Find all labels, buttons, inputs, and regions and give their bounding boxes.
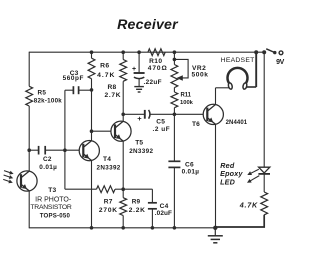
wire R8 to T5 collector (122, 81, 124, 121)
headset headband (228, 68, 248, 84)
node junction rail end switch (262, 50, 266, 54)
wire rail to R6 (91, 52, 93, 58)
wire T3 emitter to ground rail (28, 191, 30, 229)
svg-text:2N3392: 2N3392 (129, 148, 153, 155)
wire T3 collector to C2 (29, 149, 38, 151)
svg-text:R7: R7 (104, 199, 113, 206)
wire bottom ground rail (29, 227, 215, 229)
svg-text:C5: C5 (156, 118, 165, 125)
wire C4 to ground rail (151, 209, 153, 228)
svg-text:C2: C2 (43, 156, 52, 163)
wire left vertical rail-to-R5 (28, 52, 30, 87)
node junction main ground (213, 226, 217, 230)
VR2 wiper rheostat loop (174, 59, 188, 78)
svg-text:Receiver: Receiver (117, 17, 179, 33)
node junction T4 collector / T5 base (90, 129, 94, 133)
capacitor C5 polarized (144, 110, 146, 119)
wire LED to resistor (263, 174, 265, 192)
capacitor C4 (148, 202, 157, 204)
svg-text:+: + (132, 66, 136, 73)
wire feedback vertical C3/C2/R7 (64, 90, 66, 189)
svg-text:.02uF: .02uF (155, 210, 172, 217)
potentiometer VR2 (171, 65, 178, 88)
svg-text:4.7K: 4.7K (239, 201, 258, 210)
wire T6 base lead (174, 113, 203, 115)
transistor T3 IR phototransistor (17, 171, 37, 191)
node junction R9 ground (121, 226, 125, 230)
node junction rail R6 (90, 50, 94, 54)
svg-text:82k-100k: 82k-100k (34, 98, 62, 105)
svg-text:.2 uF: .2 uF (153, 126, 171, 133)
resistor 4.7K LED (261, 192, 268, 215)
svg-text:R11: R11 (181, 93, 192, 99)
wire LED branch to ground thick (215, 215, 264, 227)
battery terminal 9V (279, 51, 283, 55)
svg-text:T6: T6 (192, 121, 200, 128)
svg-text:R9: R9 (132, 199, 141, 206)
node junction VR2 top wiper (173, 58, 177, 62)
wire C3 left lead (65, 89, 74, 91)
wire R9 to ground rail (122, 216, 124, 228)
node junction rail VR2 (173, 50, 177, 54)
svg-text:2N4401: 2N4401 (226, 120, 248, 126)
svg-text:0.01µ: 0.01µ (39, 164, 57, 171)
wire C5 left lead (123, 113, 144, 115)
wire C2 to T4 base (45, 149, 79, 151)
wire rail to VR2 (173, 52, 175, 64)
node junction C6 ground (173, 226, 177, 230)
wire T5 emitter down (122, 141, 124, 189)
svg-text:R6: R6 (100, 63, 110, 70)
svg-text:R5: R5 (38, 90, 47, 97)
switch lever (266, 49, 274, 53)
node junction rail bypass cap (137, 50, 141, 54)
svg-text:C6: C6 (185, 161, 194, 168)
wire R11 to node (173, 108, 175, 115)
capacitor C6 (168, 160, 180, 162)
node junction headset rail (254, 50, 258, 54)
switch contact dot (273, 51, 276, 54)
ground symbol main (214, 228, 216, 236)
wire T4 emitter down to ground (91, 161, 93, 228)
wire rail to R8 (122, 52, 124, 59)
svg-text:TRANSISTOR: TRANSISTOR (30, 204, 72, 211)
node junction R6/C3 (90, 88, 94, 92)
wire node to C4 (123, 188, 152, 190)
svg-text:C4: C4 (160, 203, 169, 210)
wire cap to ground symbol (138, 79, 140, 87)
resistor R8 (120, 60, 127, 82)
headset left earpiece (228, 82, 233, 89)
wire VR2 to R11 (173, 88, 175, 92)
svg-text:IR PHOTO-: IR PHOTO- (35, 196, 72, 203)
wire C3 node to T4 collector node (91, 90, 93, 131)
svg-text:HEADSET: HEADSET (221, 57, 255, 64)
node junction C2 tap (27, 148, 31, 152)
IR light arrows into T3 (4, 171, 12, 174)
svg-text:2.7K: 2.7K (105, 92, 122, 99)
LED emission arrows (249, 169, 259, 174)
node junction C5/R11/T6 base (173, 113, 177, 117)
wire node to R9 (122, 189, 124, 198)
wire rail down to LED (263, 52, 265, 167)
svg-text:T4: T4 (103, 156, 111, 163)
svg-text:500k: 500k (192, 71, 209, 78)
LED red epoxy (259, 167, 270, 173)
svg-text:100k: 100k (180, 100, 194, 106)
capacitor .22uF polarized (134, 72, 145, 74)
wire R6 to C3 node (91, 79, 93, 90)
wire T4 collector up (91, 131, 93, 141)
svg-text:R10: R10 (149, 58, 162, 65)
resistor R10 (148, 49, 165, 56)
svg-text:TOPS-050: TOPS-050 (40, 213, 71, 220)
resistor R6 (88, 58, 95, 78)
wire T6 collector up (215, 88, 217, 105)
wire top supply rail (29, 51, 264, 53)
wire R5 to T3 collector (28, 106, 30, 171)
transistor T4 (79, 141, 99, 161)
svg-text:270K: 270K (99, 207, 118, 214)
svg-text:LED: LED (220, 177, 235, 186)
svg-text:9V: 9V (276, 59, 284, 66)
wire C3 right lead (79, 89, 92, 91)
capacitor C2 (38, 146, 40, 155)
wire T6 emitter down (215, 124, 217, 228)
wire T5 base lead (92, 130, 111, 132)
wire headset to rail thick (255, 52, 257, 87)
node junction T4 emitter ground (90, 226, 94, 230)
resistor R11 (171, 92, 178, 108)
wire C5 right lead (150, 113, 174, 115)
ground symbol bypass (134, 86, 144, 88)
wire rail to bypass cap (138, 52, 140, 73)
wire R7 right lead (115, 188, 123, 190)
svg-text:2.2K: 2.2K (129, 207, 146, 214)
resistor R5 (26, 86, 33, 106)
node junction C4 ground (151, 226, 155, 230)
wire node to C6 (173, 114, 175, 161)
wire headset right lead (247, 86, 257, 88)
node junction T5e/R7/R9/C4 (121, 187, 125, 191)
svg-text:470Ω: 470Ω (148, 65, 168, 72)
wire C6 to ground rail (173, 167, 175, 227)
svg-text:.22uF: .22uF (144, 79, 162, 86)
transistor T5 (111, 121, 131, 141)
svg-text:2N3392: 2N3392 (97, 165, 121, 172)
resistor R7 (97, 186, 116, 193)
svg-text:4.7K: 4.7K (97, 72, 115, 79)
svg-text:0.01µ: 0.01µ (182, 168, 200, 175)
svg-text:T5: T5 (135, 140, 143, 147)
resistor R9 (120, 198, 127, 216)
node junction rail R8 (121, 50, 125, 54)
svg-text:R8: R8 (108, 84, 117, 91)
node junction C5 tap (121, 113, 125, 117)
node junction feedback tap (63, 148, 67, 152)
headset right earpiece (242, 82, 247, 89)
wire R7 left lead (65, 188, 97, 190)
svg-text:+: + (137, 114, 142, 123)
wire headset left lead (216, 87, 229, 89)
svg-text:560pF: 560pF (63, 75, 84, 82)
transistor T6 (203, 104, 223, 124)
svg-text:T3: T3 (48, 187, 56, 194)
capacitor C3 (72, 86, 74, 94)
